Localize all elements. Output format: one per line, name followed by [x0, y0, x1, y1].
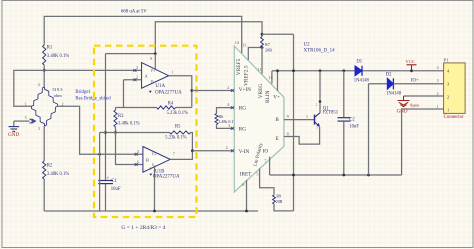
svg-text:A: A	[145, 74, 148, 79]
wire vertical A (V+ to C1)	[105, 54, 107, 181]
pin junction crosses	[133, 69, 136, 72]
U1B output pin7 wire	[170, 151, 192, 160]
svg-text:ohm: ohm	[54, 93, 63, 98]
svg-text:OPA2277UA: OPA2277UA	[155, 91, 182, 96]
svg-text:8: 8	[150, 56, 152, 61]
svg-text:2: 2	[227, 85, 229, 90]
svg-text:2: 2	[437, 91, 439, 96]
wire pin5 to R9	[260, 169, 274, 195]
svg-text:U1A: U1A	[155, 84, 165, 89]
svg-text:3: 3	[437, 78, 439, 83]
svg-text:4: 4	[38, 82, 40, 87]
U1A pin2 wire	[124, 79, 142, 81]
wire B pin to Q1 base	[284, 119, 315, 121]
svg-text:519.3: 519.3	[52, 87, 63, 92]
node rail2/R7 top	[261, 33, 264, 36]
resistor R4	[116, 107, 157, 109]
svg-text:E: E	[276, 136, 279, 142]
resistor R3	[114, 110, 117, 127]
svg-text:R1: R1	[47, 46, 53, 51]
wire R7 bottom to VREG pin11	[261, 48, 263, 74]
wire V-IN	[192, 150, 234, 152]
svg-text:V+: V+	[273, 94, 280, 100]
op-amp / IC U2 XTR106 body	[234, 46, 284, 192]
resistor R5	[170, 131, 191, 134]
svg-text:GND: GND	[8, 132, 19, 138]
svg-text:VREG: VREG	[258, 84, 264, 99]
svg-text:VREF2.5: VREF2.5	[244, 65, 250, 86]
svg-text:V-IN: V-IN	[239, 149, 250, 155]
svg-text:20R: 20R	[276, 199, 283, 204]
svg-text:P1: P1	[444, 57, 450, 62]
svg-text:G = 1 + 2R4/R3 = 4: G = 1 + 2R4/R3 = 4	[121, 225, 165, 231]
wire U1A- feedback vertical	[123, 80, 125, 108]
bridge shield pin 5 wire	[14, 120, 30, 122]
svg-text:3.48k 0.1%: 3.48k 0.1%	[118, 122, 140, 127]
svg-text:C1: C1	[111, 179, 117, 184]
svg-text:1N4148: 1N4148	[386, 92, 402, 97]
svg-text:13: 13	[242, 42, 246, 47]
wire to V+ vertical	[262, 33, 294, 35]
svg-text:OPA2277UA: OPA2277UA	[153, 174, 180, 179]
wire left branch to bridge pin1	[14, 70, 44, 106]
svg-text:11: 11	[258, 67, 262, 72]
svg-text:8: 8	[287, 132, 289, 137]
svg-text:2: 2	[447, 95, 449, 100]
wire top rail 1 (VREF5 feed)	[44, 16, 242, 53]
svg-text:IO: IO	[263, 148, 269, 154]
svg-text:4: 4	[149, 167, 151, 171]
svg-text:3: 3	[228, 123, 230, 128]
svg-text:10uF: 10uF	[111, 187, 121, 192]
wire R3 node to U1B pin6	[116, 133, 143, 165]
wire bottom rail (V-)	[44, 210, 258, 212]
capacitor C2	[343, 71, 345, 118]
wire IO- rail	[270, 174, 402, 176]
svg-text:2: 2	[62, 101, 64, 106]
transistor Q1 FZT851	[314, 115, 316, 125]
connector P1	[444, 63, 466, 114]
svg-text:RLIN: RLIN	[265, 90, 271, 103]
wire top rail 2 (VREG / opamp V+)	[155, 22, 262, 54]
wire pin13 VREF2.5	[248, 48, 262, 61]
ground GND (left)	[13, 121, 15, 127]
svg-text:C2: C2	[349, 118, 355, 123]
svg-text:B: B	[275, 117, 279, 123]
svg-text:XTR106_D_14: XTR106_D_14	[304, 49, 336, 54]
svg-text:Span: Span	[410, 103, 420, 108]
svg-text:R2: R2	[47, 164, 53, 169]
op-amp U1A	[142, 63, 169, 89]
wire IO pin7 down	[269, 157, 271, 175]
wire V+ rail	[272, 70, 355, 72]
svg-text:20R: 20R	[265, 47, 272, 52]
svg-text:1: 1	[437, 104, 439, 109]
op-amp U1B	[143, 147, 170, 173]
svg-text:1: 1	[447, 107, 449, 112]
svg-text:7: 7	[264, 159, 266, 164]
svg-text:3.48K 0.1%: 3.48K 0.1%	[47, 172, 70, 177]
svg-text:Bridge1: Bridge1	[75, 90, 91, 95]
U1B pin4 (V-) stub	[154, 167, 156, 211]
svg-text:10nF: 10nF	[349, 125, 359, 130]
bridge Bridge1 (Res Bridge_shiled)	[32, 87, 45, 106]
svg-text:+: +	[107, 176, 110, 181]
wire IRET to V- rail	[246, 180, 248, 211]
svg-text:R3: R3	[118, 114, 124, 119]
svg-text:3.48K 0.1%: 3.48K 0.1%	[47, 54, 70, 59]
svg-text:1N4148: 1N4148	[354, 79, 370, 84]
svg-text:6: 6	[242, 182, 244, 187]
svg-text:R5: R5	[175, 125, 181, 130]
svg-text:Connector: Connector	[444, 115, 464, 120]
resistor R2	[43, 126, 45, 161]
resistor R6 (RG)	[217, 108, 235, 114]
resistor R9	[273, 195, 276, 204]
wire R9 bottom	[274, 204, 294, 211]
wire V+IN	[192, 90, 235, 92]
svg-text:RG: RG	[239, 126, 246, 132]
svg-text:D2: D2	[386, 72, 392, 77]
node U1B out / V-IN	[191, 149, 194, 152]
diode D1 1N4148	[355, 66, 362, 76]
wire E pin	[284, 127, 320, 144]
svg-text:D1: D1	[356, 59, 362, 64]
svg-text:2: 2	[226, 145, 228, 150]
svg-text:5.23k 0.1%: 5.23k 0.1%	[167, 111, 189, 116]
wire feedback rail	[100, 132, 170, 134]
svg-text:RG: RG	[239, 106, 246, 112]
svg-text:1: 1	[24, 101, 26, 106]
wire D2 anode to IO- rail	[368, 84, 370, 175]
wire RLIN pin10 to V+ rail	[271, 71, 273, 84]
svg-text:IO+: IO+	[411, 79, 419, 84]
svg-text:VCC: VCC	[405, 59, 414, 64]
Q1 collector wire	[319, 71, 321, 113]
svg-text:3: 3	[38, 126, 40, 131]
wire R2 to bottom rail	[43, 179, 45, 211]
diode D2 1N4148	[369, 83, 388, 85]
node R7 bottom	[261, 46, 264, 49]
wire long vertical x=293.5	[293, 34, 295, 211]
U1A output pin1 wire	[169, 76, 192, 108]
node R1/bridge/U1A+	[43, 69, 46, 72]
svg-text:V+IN: V+IN	[239, 87, 251, 93]
svg-text:668 uA at 5V: 668 uA at 5V	[121, 9, 147, 14]
svg-text:R4: R4	[168, 101, 174, 106]
node U1A out to V+IN	[190, 89, 193, 92]
svg-text:7: 7	[173, 152, 175, 157]
U1A pin8 (V+) stub	[154, 54, 156, 69]
resistor R1	[43, 45, 46, 65]
node R3 bottom	[114, 131, 117, 134]
wire opamp V+ distribution	[106, 53, 156, 55]
svg-text:VREF5: VREF5	[236, 58, 242, 75]
svg-text:5: 5	[25, 115, 27, 120]
V+ pin stub	[277, 71, 279, 91]
svg-text:1: 1	[306, 114, 308, 119]
svg-text:IRET: IRET	[240, 171, 252, 177]
capacitor C1	[98, 180, 113, 182]
svg-text:V+: V+	[151, 69, 156, 73]
shield chevron	[30, 119, 34, 124]
power port GND (right)	[403, 96, 405, 101]
resistor R7	[261, 37, 264, 48]
wire P1 pin1 to IO- rail	[402, 109, 444, 175]
power port VCC	[407, 64, 417, 66]
wire R1 bottom to node	[43, 65, 45, 70]
svg-text:B: B	[146, 157, 149, 162]
svg-text:5.23k 0.1%: 5.23k 0.1%	[165, 136, 187, 141]
svg-text:FZT851: FZT851	[323, 111, 339, 116]
wire node down to bridge top	[43, 70, 45, 87]
wire node to U1A pin3	[44, 69, 141, 71]
svg-text:1: 1	[171, 70, 173, 75]
svg-text:V+: V+	[152, 153, 157, 157]
wire bridge pin2 to U1B pin5	[58, 106, 143, 154]
wire ref vertical to V-	[99, 133, 101, 212]
yellow dashed group box	[94, 46, 197, 217]
svg-text:9: 9	[287, 114, 289, 119]
svg-text:U2: U2	[304, 42, 311, 47]
svg-text:5: 5	[256, 172, 258, 177]
wire P1 pin2	[404, 95, 444, 97]
svg-text:4: 4	[437, 65, 439, 70]
svg-text:R7: R7	[265, 42, 270, 47]
